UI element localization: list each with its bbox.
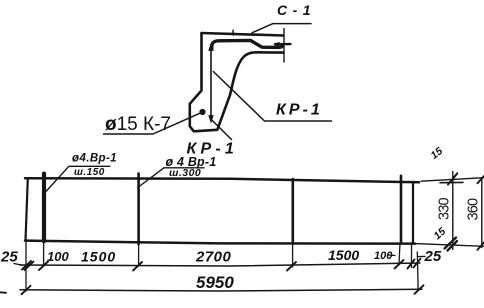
svg-text:КР-1: КР-1 <box>276 102 323 119</box>
svg-text:15: 15 <box>431 225 448 242</box>
svg-text:1500: 1500 <box>328 247 359 263</box>
svg-text:С-1: С-1 <box>277 2 316 18</box>
svg-text:5950: 5950 <box>196 273 234 292</box>
svg-text:100: 100 <box>374 250 393 262</box>
svg-text:1500: 1500 <box>81 249 116 265</box>
svg-text:2700: 2700 <box>195 249 232 266</box>
svg-text:ш.150: ш.150 <box>74 167 105 178</box>
svg-text:ш.300: ш.300 <box>169 167 201 179</box>
svg-text:360: 360 <box>466 198 482 221</box>
svg-text:25: 25 <box>424 248 442 265</box>
svg-text:330: 330 <box>437 197 453 220</box>
svg-text:ø4.Вр-1: ø4.Вр-1 <box>72 153 117 165</box>
svg-text:25: 25 <box>0 249 18 266</box>
svg-text:100: 100 <box>47 249 69 264</box>
svg-text:15: 15 <box>428 145 445 162</box>
svg-text:ø15 К-7: ø15 К-7 <box>105 114 171 135</box>
